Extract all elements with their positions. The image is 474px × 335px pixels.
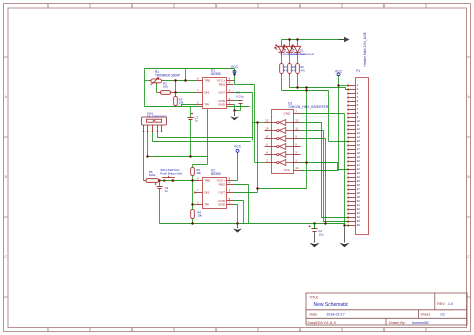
wire C2 top [190, 107, 192, 118]
wire SW1 leg3 across [158, 132, 253, 138]
svg-text:1: 1 [47, 4, 49, 8]
resistor R6 10k [191, 168, 195, 176]
frame row letters [4, 95, 470, 259]
frame ruler ticks top [48, 4, 426, 9]
LED D3 [291, 45, 301, 53]
capacitor C2 1u [188, 113, 194, 120]
svg-text:Drawn By:: Drawn By: [389, 321, 406, 325]
wire resistor outputs [282, 74, 298, 91]
wire LED column drops [282, 40, 298, 47]
node header pin ends [347, 85, 348, 226]
svg-text:10k: 10k [179, 100, 184, 104]
node R1R/TRE [174, 79, 176, 81]
svg-text:13: 13 [295, 119, 299, 123]
wire U3 pin14 VCC [301, 75, 339, 171]
wire CON U2 [234, 201, 244, 224]
frame ruler ticks bottom [48, 328, 426, 332]
wire U3 pin1 net to header pin22 [301, 163, 349, 170]
wire TRE-TRI tie U2 [192, 181, 194, 210]
title block [306, 293, 467, 325]
wire R1 right to TRE [164, 80, 196, 82]
node C3 top [158, 179, 160, 181]
wire channel x254.5 [254, 85, 256, 163]
wire channel x257.5 pin12 to OUT [258, 123, 307, 193]
node x306 r90 [305, 89, 307, 91]
op-amp U1 NE555 body [196, 69, 234, 109]
wire to U3 pin2 [255, 162, 265, 164]
svg-text:5: 5 [383, 328, 385, 332]
wire U3 GND pin7 [301, 114, 349, 226]
node U2 gnd rail [236, 222, 238, 224]
frame ruler ticks left [4, 57, 9, 297]
svg-text:0.01u: 0.01u [236, 94, 244, 98]
resistor R5 100k [144, 179, 162, 183]
svg-text:VCC: VCC [231, 65, 239, 69]
wire RES U2 [234, 185, 249, 224]
wire bottom rail U1 [145, 106, 250, 108]
wire row 90.5 [282, 90, 329, 92]
svg-text:TRI: TRI [204, 203, 209, 207]
resistor R8 470 [288, 64, 292, 74]
wire VCC3 to header pin1 [339, 85, 349, 87]
node C1/GND [233, 109, 235, 111]
svg-text:4: 4 [299, 4, 301, 8]
ground (U1) [230, 111, 239, 121]
svg-text:TRE: TRE [204, 178, 210, 182]
wire U3 pin9 to rail [301, 139, 326, 224]
wire SW1 leg1 down [148, 132, 208, 157]
wire C3 top [159, 181, 161, 187]
LED D1 [275, 45, 285, 53]
svg-text:EasyEDA V4.11.9: EasyEDA V4.11.9 [308, 321, 336, 325]
wire R1 left [145, 80, 150, 82]
svg-text:TC-R05050-BSUR: TC-R05050-BSUR [296, 54, 315, 56]
wire U3 pin13 to header pin34 [301, 123, 349, 218]
svg-text:NE555: NE555 [211, 72, 221, 76]
svg-text:RES: RES [219, 182, 225, 186]
wire C1 gnd join [235, 110, 241, 112]
resistor R1 (trimmer) [149, 78, 164, 85]
node LED rail a [288, 38, 290, 40]
node arrow netport [339, 39, 345, 41]
wire DIS row U1 [176, 92, 196, 94]
capacitor C3 1u [154, 183, 162, 189]
svg-text:VCC: VCC [234, 144, 242, 148]
svg-text:10k: 10k [163, 85, 168, 89]
resistor R9 470 [296, 64, 300, 74]
power VCC flag U2 [234, 144, 242, 153]
svg-text:New Schematic: New Schematic [314, 302, 349, 308]
svg-text:3: 3 [215, 4, 217, 8]
wire R4 bottom [192, 219, 194, 224]
svg-text:OUT: OUT [218, 90, 225, 94]
node SW leg2 [146, 155, 148, 157]
svg-text:1.0: 1.0 [448, 302, 453, 306]
svg-text:2: 2 [131, 328, 133, 332]
power VCC flag header [335, 70, 343, 76]
svg-text:TRI: TRI [204, 103, 209, 107]
svg-text:1/1: 1/1 [440, 313, 445, 317]
wire channel x306 [306, 88, 308, 189]
svg-text:1u: 1u [165, 189, 169, 193]
wire OUT U1 [234, 92, 253, 94]
svg-text:2018-01-17: 2018-01-17 [326, 313, 344, 317]
wire channel x252.6 [252, 93, 254, 141]
wire row 180 U2 TRE [161, 180, 196, 182]
ground (U2) [233, 224, 242, 233]
wire ground rail [160, 223, 345, 225]
wire x207 vertical [193, 107, 208, 165]
node U2 DIS pin end [194, 192, 195, 193]
node LED rail b [296, 38, 298, 40]
svg-text:RES: RES [219, 82, 225, 86]
svg-text:1: 1 [47, 328, 49, 332]
svg-text:74HC04_HEX_INVERTER: 74HC04_HEX_INVERTER [288, 105, 329, 109]
node VCC1 [233, 73, 235, 75]
svg-text:11: 11 [295, 127, 298, 131]
node LED res join [296, 86, 298, 88]
node rail drop [184, 79, 186, 81]
title block text [308, 296, 446, 325]
node R2R/DIS [174, 91, 176, 93]
svg-text:4: 4 [299, 328, 301, 332]
wire channel x328 to header pin15 [329, 91, 349, 142]
node button right [172, 179, 174, 181]
svg-text:homeml82: homeml82 [412, 321, 429, 325]
push button SW2 [162, 176, 175, 182]
wire GND U2 [234, 205, 238, 224]
wire CON U1 to C1 [234, 100, 241, 102]
node C2 bottom [189, 155, 191, 157]
wire SW1 leg2 across [153, 132, 251, 142]
frame ruler ticks right [467, 57, 471, 297]
svg-text:1u: 1u [195, 118, 199, 122]
svg-text:DIS: DIS [204, 190, 209, 194]
wire C1 bottom [240, 104, 242, 111]
ground (C4) [309, 232, 319, 248]
wire rail drop to TRE row [185, 69, 187, 81]
wire VCC drop U1 [234, 69, 236, 85]
svg-text:3: 3 [215, 328, 217, 332]
node R4 rail [191, 222, 193, 224]
svg-text:12: 12 [265, 119, 269, 123]
connector P1 header [347, 32, 368, 234]
wire VCC+ stub joiner [234, 80, 235, 82]
wire left loop vertical [144, 69, 146, 107]
wire row 87.5 to header pin2 [290, 88, 349, 90]
resistor R4 10k [191, 210, 195, 219]
wire TRI U2 [193, 204, 196, 206]
capacitor C1 0.01u [239, 101, 243, 104]
op-amp U3 74HC04 hex inverter [265, 102, 329, 174]
svg-text:TITLE:: TITLE: [310, 296, 320, 300]
capacitor C4 10u [309, 224, 318, 232]
node x306 pin1 [305, 161, 307, 163]
frame column numbers [47, 4, 385, 332]
wire LED to resistor [282, 52, 298, 63]
svg-text:100k: 100k [149, 173, 156, 177]
wire top rail U1 [145, 68, 235, 70]
svg-text:10: 10 [265, 127, 269, 131]
svg-text:5: 5 [383, 4, 385, 8]
node R6 bottom [191, 179, 193, 181]
resistor R3 10k [174, 93, 178, 107]
wire C3 bottom [159, 189, 161, 224]
wire LED top rail [282, 39, 344, 41]
svg-text:470: 470 [300, 68, 305, 72]
svg-text:10u: 10u [319, 232, 324, 236]
node pin9 rail [324, 222, 326, 224]
LED D2 [283, 45, 293, 53]
svg-text:GND: GND [218, 103, 226, 107]
wire GND U1 [234, 105, 235, 111]
wire U3 pin11 to header pin35 [301, 131, 349, 222]
svg-text:10k: 10k [196, 171, 201, 175]
svg-text:P1: P1 [356, 69, 360, 73]
svg-text:SK-12D07VG3: SK-12D07VG3 [147, 114, 167, 118]
svg-text:VCC: VCC [284, 168, 291, 172]
wire R3 bottom to rail [175, 106, 177, 107]
svg-text:DIS: DIS [204, 90, 209, 94]
svg-text:Date:: Date: [310, 313, 319, 317]
svg-text:Sheet:: Sheet: [421, 313, 431, 317]
wire R6 stubs [192, 165, 194, 181]
wire SW1 far left leg to R5 [143, 132, 145, 181]
svg-text:2: 2 [131, 4, 133, 8]
node VCC3 pin1 [337, 84, 339, 86]
node x306 r87 [305, 86, 307, 88]
ground (header pin36) [339, 226, 349, 248]
svg-text:REV:: REV: [437, 302, 445, 306]
wire to U3 pin12 [253, 122, 265, 124]
wire VCC2 to U2 [234, 153, 238, 181]
wire RES row to channel [235, 84, 255, 86]
svg-text:TRIMMER-3306P: TRIMMER-3306P [155, 73, 180, 77]
svg-text:Push Button 6x6: Push Button 6x6 [160, 171, 182, 175]
node x257 out [256, 187, 258, 189]
svg-text:OUT: OUT [218, 190, 225, 194]
svg-text:NE555: NE555 [211, 172, 221, 176]
svg-text:10k: 10k [197, 214, 202, 218]
wire R1R to R2R [175, 81, 177, 93]
svg-text:TRE: TRE [204, 78, 210, 82]
svg-text:Header Male 2.54_1x36: Header Male 2.54_1x36 [363, 32, 367, 66]
op-amp U2 NE555 body [196, 168, 234, 208]
node pin12 channel [256, 121, 258, 123]
node TRI U2 [191, 203, 193, 205]
svg-text:GND: GND [284, 112, 292, 116]
svg-text:14: 14 [295, 166, 299, 170]
node C4 rail [313, 222, 315, 224]
node gnd header [343, 224, 345, 226]
wire OUT U2 [234, 192, 258, 194]
switch SW1 SK-12D07VG3 [142, 117, 167, 132]
svg-text:36: 36 [357, 223, 361, 227]
wire C2 bottom [190, 120, 192, 157]
power VCC flag U1 [231, 65, 239, 74]
wire trimmer wiper to R2 [156, 84, 158, 93]
wire TRI U1 to rail [182, 105, 196, 107]
svg-text:VCC: VCC [335, 70, 343, 74]
resistor R2 10k [157, 91, 176, 95]
resistor R7 470 [280, 64, 284, 74]
svg-text:GND: GND [218, 203, 226, 207]
inverter gates [272, 120, 294, 166]
